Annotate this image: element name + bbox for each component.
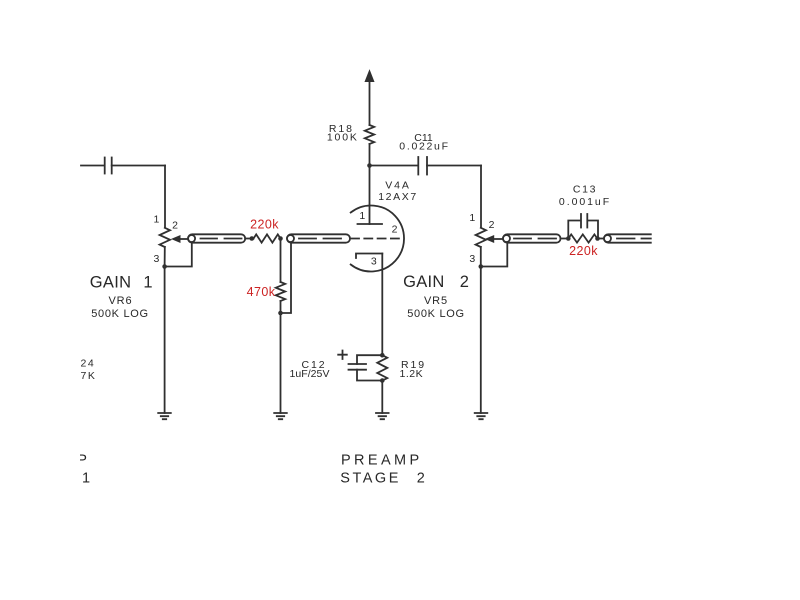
shielded cable 1 [188, 234, 245, 242]
wire cathode lead down [381, 254, 383, 356]
potentiometer VR5 element [476, 228, 486, 247]
wiper arrow VR5 [486, 236, 494, 243]
svg-text:C13: C13 [573, 184, 597, 196]
svg-text:3: 3 [371, 256, 377, 268]
svg-text:GAIN: GAIN [90, 273, 132, 291]
node pin3 VR6 [162, 264, 167, 269]
resistor R19 [377, 355, 387, 380]
wire pin3 to shield drop VR5 [481, 243, 508, 267]
node pin3 VR5 [479, 264, 484, 269]
wire corner down to VR5 pin1 [480, 166, 482, 228]
node plate junction [367, 163, 372, 168]
wire plate lead [369, 166, 371, 225]
svg-text:1: 1 [153, 214, 159, 226]
svg-text:1: 1 [82, 470, 90, 486]
resistor 220k right [568, 234, 597, 242]
wire ground lead VR6 [164, 267, 166, 414]
svg-text:1: 1 [469, 212, 475, 224]
wire junction down to 470k [280, 239, 282, 283]
potentiometer VR6 element [160, 228, 170, 247]
svg-text:0.022uF: 0.022uF [399, 141, 449, 153]
wire supply lead down to R18 [369, 80, 371, 125]
wire C12 branch top [357, 355, 382, 364]
plus sign C12 [338, 351, 347, 360]
svg-text:GAIN: GAIN [403, 273, 445, 291]
capacitor C13 plates [580, 214, 582, 228]
wire junction to C11 left plate [370, 165, 419, 167]
wire corner down to VR6 pin1 [164, 166, 166, 228]
wire pot bottom to pin3 node [164, 247, 166, 267]
svg-text:220k: 220k [569, 244, 598, 258]
svg-text:3: 3 [469, 253, 475, 265]
svg-text:2: 2 [417, 470, 425, 486]
svg-text:VR5: VR5 [424, 295, 448, 307]
left crop mask [0, 0, 80, 600]
wire 470k bottom to node [280, 301, 282, 313]
svg-text:PREAMP: PREAMP [341, 452, 423, 468]
wire cap to corner [112, 165, 165, 167]
svg-text:500K LOG: 500K LOG [91, 308, 149, 320]
svg-text:STAGE: STAGE [340, 470, 401, 486]
grid dashed line V4A [351, 238, 403, 240]
node 470k bottom [278, 311, 283, 316]
resistor R18 [365, 125, 374, 144]
svg-text:1: 1 [359, 210, 365, 222]
ground symbol VR5 [475, 413, 488, 419]
svg-text:7K: 7K [81, 370, 97, 382]
svg-text:3: 3 [153, 253, 159, 265]
node cable1 out [250, 236, 255, 241]
svg-text:1uF/25V: 1uF/25V [289, 368, 329, 380]
ground symbol cathode [376, 413, 389, 419]
svg-text:500K LOG: 500K LOG [407, 308, 465, 320]
shielded cable 4 [503, 234, 561, 242]
shielded cable 5 output clipped [604, 234, 651, 242]
svg-text:24: 24 [81, 358, 96, 370]
ground symbol VR6 [158, 413, 171, 419]
wire R18 bottom to plate junction [369, 144, 371, 166]
wire C12 branch bottom [357, 370, 382, 381]
svg-text:1: 1 [143, 273, 152, 291]
wiper arrow VR6 [172, 236, 180, 243]
resistor 470k [276, 282, 285, 301]
resistor 220k left [254, 234, 281, 242]
wire shield2 drop to node [281, 243, 292, 314]
node cathode top [380, 353, 385, 358]
svg-text:12AX7: 12AX7 [378, 191, 418, 203]
node 220k right out [595, 236, 600, 241]
node cathode bottom [380, 378, 385, 383]
plate bar V4A [358, 223, 383, 225]
svg-text:2: 2 [489, 219, 495, 231]
wire pin3 to shield drop [165, 243, 192, 267]
svg-text:2: 2 [172, 220, 178, 232]
svg-text:VR6: VR6 [108, 295, 132, 307]
shielded cable 2 [287, 234, 350, 242]
wire ground lead VR5 [480, 267, 482, 414]
svg-text:220k: 220k [250, 218, 279, 232]
capacitor C13 bracket left [568, 221, 579, 239]
wire input from left edge to coupling cap [81, 165, 105, 167]
cathode V4A [356, 254, 382, 259]
svg-text:1.2K: 1.2K [400, 368, 424, 380]
capacitor input coupling [104, 158, 106, 174]
wire ground lead cathode [381, 381, 383, 414]
svg-text:V4A: V4A [385, 180, 411, 192]
wire C11 right plate to GAIN2 corner [427, 165, 481, 167]
svg-text:470k: 470k [247, 285, 276, 299]
capacitor C13 bracket right [589, 221, 598, 239]
power arrow B+ [365, 71, 374, 82]
capacitor C11 [417, 157, 419, 175]
svg-text:0.001uF: 0.001uF [559, 196, 611, 208]
node cable4 out [566, 236, 571, 241]
capacitor C12 plates [349, 363, 367, 365]
svg-text:2: 2 [392, 224, 398, 236]
wire ground lead 470k [280, 313, 282, 413]
svg-text:2: 2 [460, 273, 469, 291]
node 220k right junction [278, 236, 283, 241]
ground symbol 470k [274, 413, 287, 419]
triode V4A envelope [351, 206, 404, 272]
svg-text:100K: 100K [327, 132, 359, 144]
